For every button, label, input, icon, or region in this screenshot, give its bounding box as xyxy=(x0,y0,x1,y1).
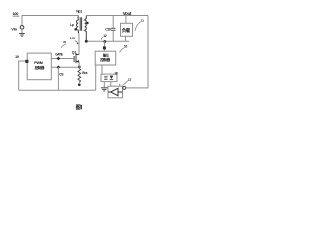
transformer T1 primary winding xyxy=(76,16,78,34)
wire bottom feedback rail xyxy=(19,89,96,91)
svg-text:Rcs: Rcs xyxy=(82,71,87,75)
node source junction dot xyxy=(78,66,81,69)
svg-text:11: 11 xyxy=(141,19,144,23)
leader Lm arrow xyxy=(75,41,79,45)
node resistor bottom dot xyxy=(78,83,81,86)
wire gate (PWM to Q1) xyxy=(51,58,74,60)
load box 负载 xyxy=(121,23,133,36)
comparator box U3 xyxy=(108,86,123,98)
transistor Q1 (NMOS) xyxy=(74,53,79,63)
svg-text:C10: C10 xyxy=(105,28,111,32)
leader curve 11 to load xyxy=(135,22,141,31)
wire opto to comparator box xyxy=(110,82,112,87)
svg-text:Lp: Lp xyxy=(70,23,74,27)
svg-text:PWM: PWM xyxy=(34,61,42,65)
transformer core xyxy=(80,17,81,31)
optocoupler box xyxy=(101,74,117,82)
op-amp triangle U3 xyxy=(108,88,123,95)
wire Q1 source to resistor xyxy=(78,62,80,69)
photodetector element xyxy=(110,76,114,80)
svg-text:输出: 输出 xyxy=(103,53,109,58)
svg-text:100: 100 xyxy=(13,12,19,16)
PWM controller box U1 xyxy=(27,53,51,80)
svg-text:图: 图 xyxy=(76,104,81,111)
node controller top terminal xyxy=(103,46,106,49)
wire comparator top stub xyxy=(119,84,121,87)
wire top rail right (secondary to Vout and right branch) xyxy=(86,15,148,17)
svg-text:Vout: Vout xyxy=(123,11,132,16)
leader curve 12 xyxy=(101,37,103,39)
leader curve 17 xyxy=(123,81,128,86)
ground (secondary) xyxy=(101,88,108,91)
wire controller pin to optocoupler xyxy=(101,65,103,74)
svg-text:控制器: 控制器 xyxy=(35,65,45,70)
polarity dot secondary xyxy=(86,22,89,25)
node CS junction diamond xyxy=(57,65,61,69)
svg-text:19: 19 xyxy=(15,55,19,59)
svg-text:18: 18 xyxy=(114,71,118,75)
wire Vout sense (right vertical) xyxy=(126,16,148,88)
wire CS (PWM to source node) xyxy=(51,66,79,68)
svg-text:GATE: GATE xyxy=(55,53,63,57)
controller box U2 xyxy=(95,51,116,65)
ground (input) xyxy=(19,34,25,37)
svg-text:Vin: Vin xyxy=(11,26,17,31)
svg-text:Lm: Lm xyxy=(70,36,75,40)
polarity dot primary xyxy=(74,28,77,31)
wire load top lead xyxy=(125,16,127,24)
svg-text:控制器: 控制器 xyxy=(100,57,110,62)
leader curve 10 to controller xyxy=(120,48,124,53)
node secondary corner dot xyxy=(85,40,88,43)
node Vin terminal xyxy=(20,26,24,30)
svg-text:12: 12 xyxy=(103,34,107,38)
wire resistor to dot xyxy=(78,82,80,84)
wire Vin terminal to ground xyxy=(21,29,23,33)
wire PWM left pin xyxy=(19,61,28,90)
capacitor C10 bottom lead xyxy=(112,31,114,41)
resistor Rcs xyxy=(78,69,81,83)
capacitor C10 top lead xyxy=(112,16,114,28)
wire load bottom lead xyxy=(125,36,127,41)
wire opto ground pin xyxy=(103,82,105,88)
svg-text:10: 10 xyxy=(124,44,128,48)
svg-text:Np1: Np1 xyxy=(76,10,82,14)
leader curve to Q1 xyxy=(61,44,66,48)
svg-text:17: 17 xyxy=(128,78,132,82)
LED element xyxy=(104,76,107,79)
node gate terminal diamond xyxy=(57,57,61,61)
node controller tap dot xyxy=(103,40,106,43)
node comparator input bubble xyxy=(123,86,126,89)
wire top rail left (Vin to transformer primary) xyxy=(22,16,78,26)
capacitor C10 xyxy=(111,28,116,30)
wire controller left pin to bottom rail xyxy=(95,65,97,90)
svg-text:负载: 负载 xyxy=(122,27,131,34)
wire drain (transformer primary bottom to Q1) xyxy=(78,33,80,55)
transformer T1 secondary winding xyxy=(85,16,87,42)
wire secondary ground line xyxy=(86,40,129,42)
wire tap to controller box xyxy=(103,41,105,51)
wire CS junction down to bottom rail xyxy=(57,67,59,90)
node PWM left pin terminal xyxy=(25,60,28,63)
